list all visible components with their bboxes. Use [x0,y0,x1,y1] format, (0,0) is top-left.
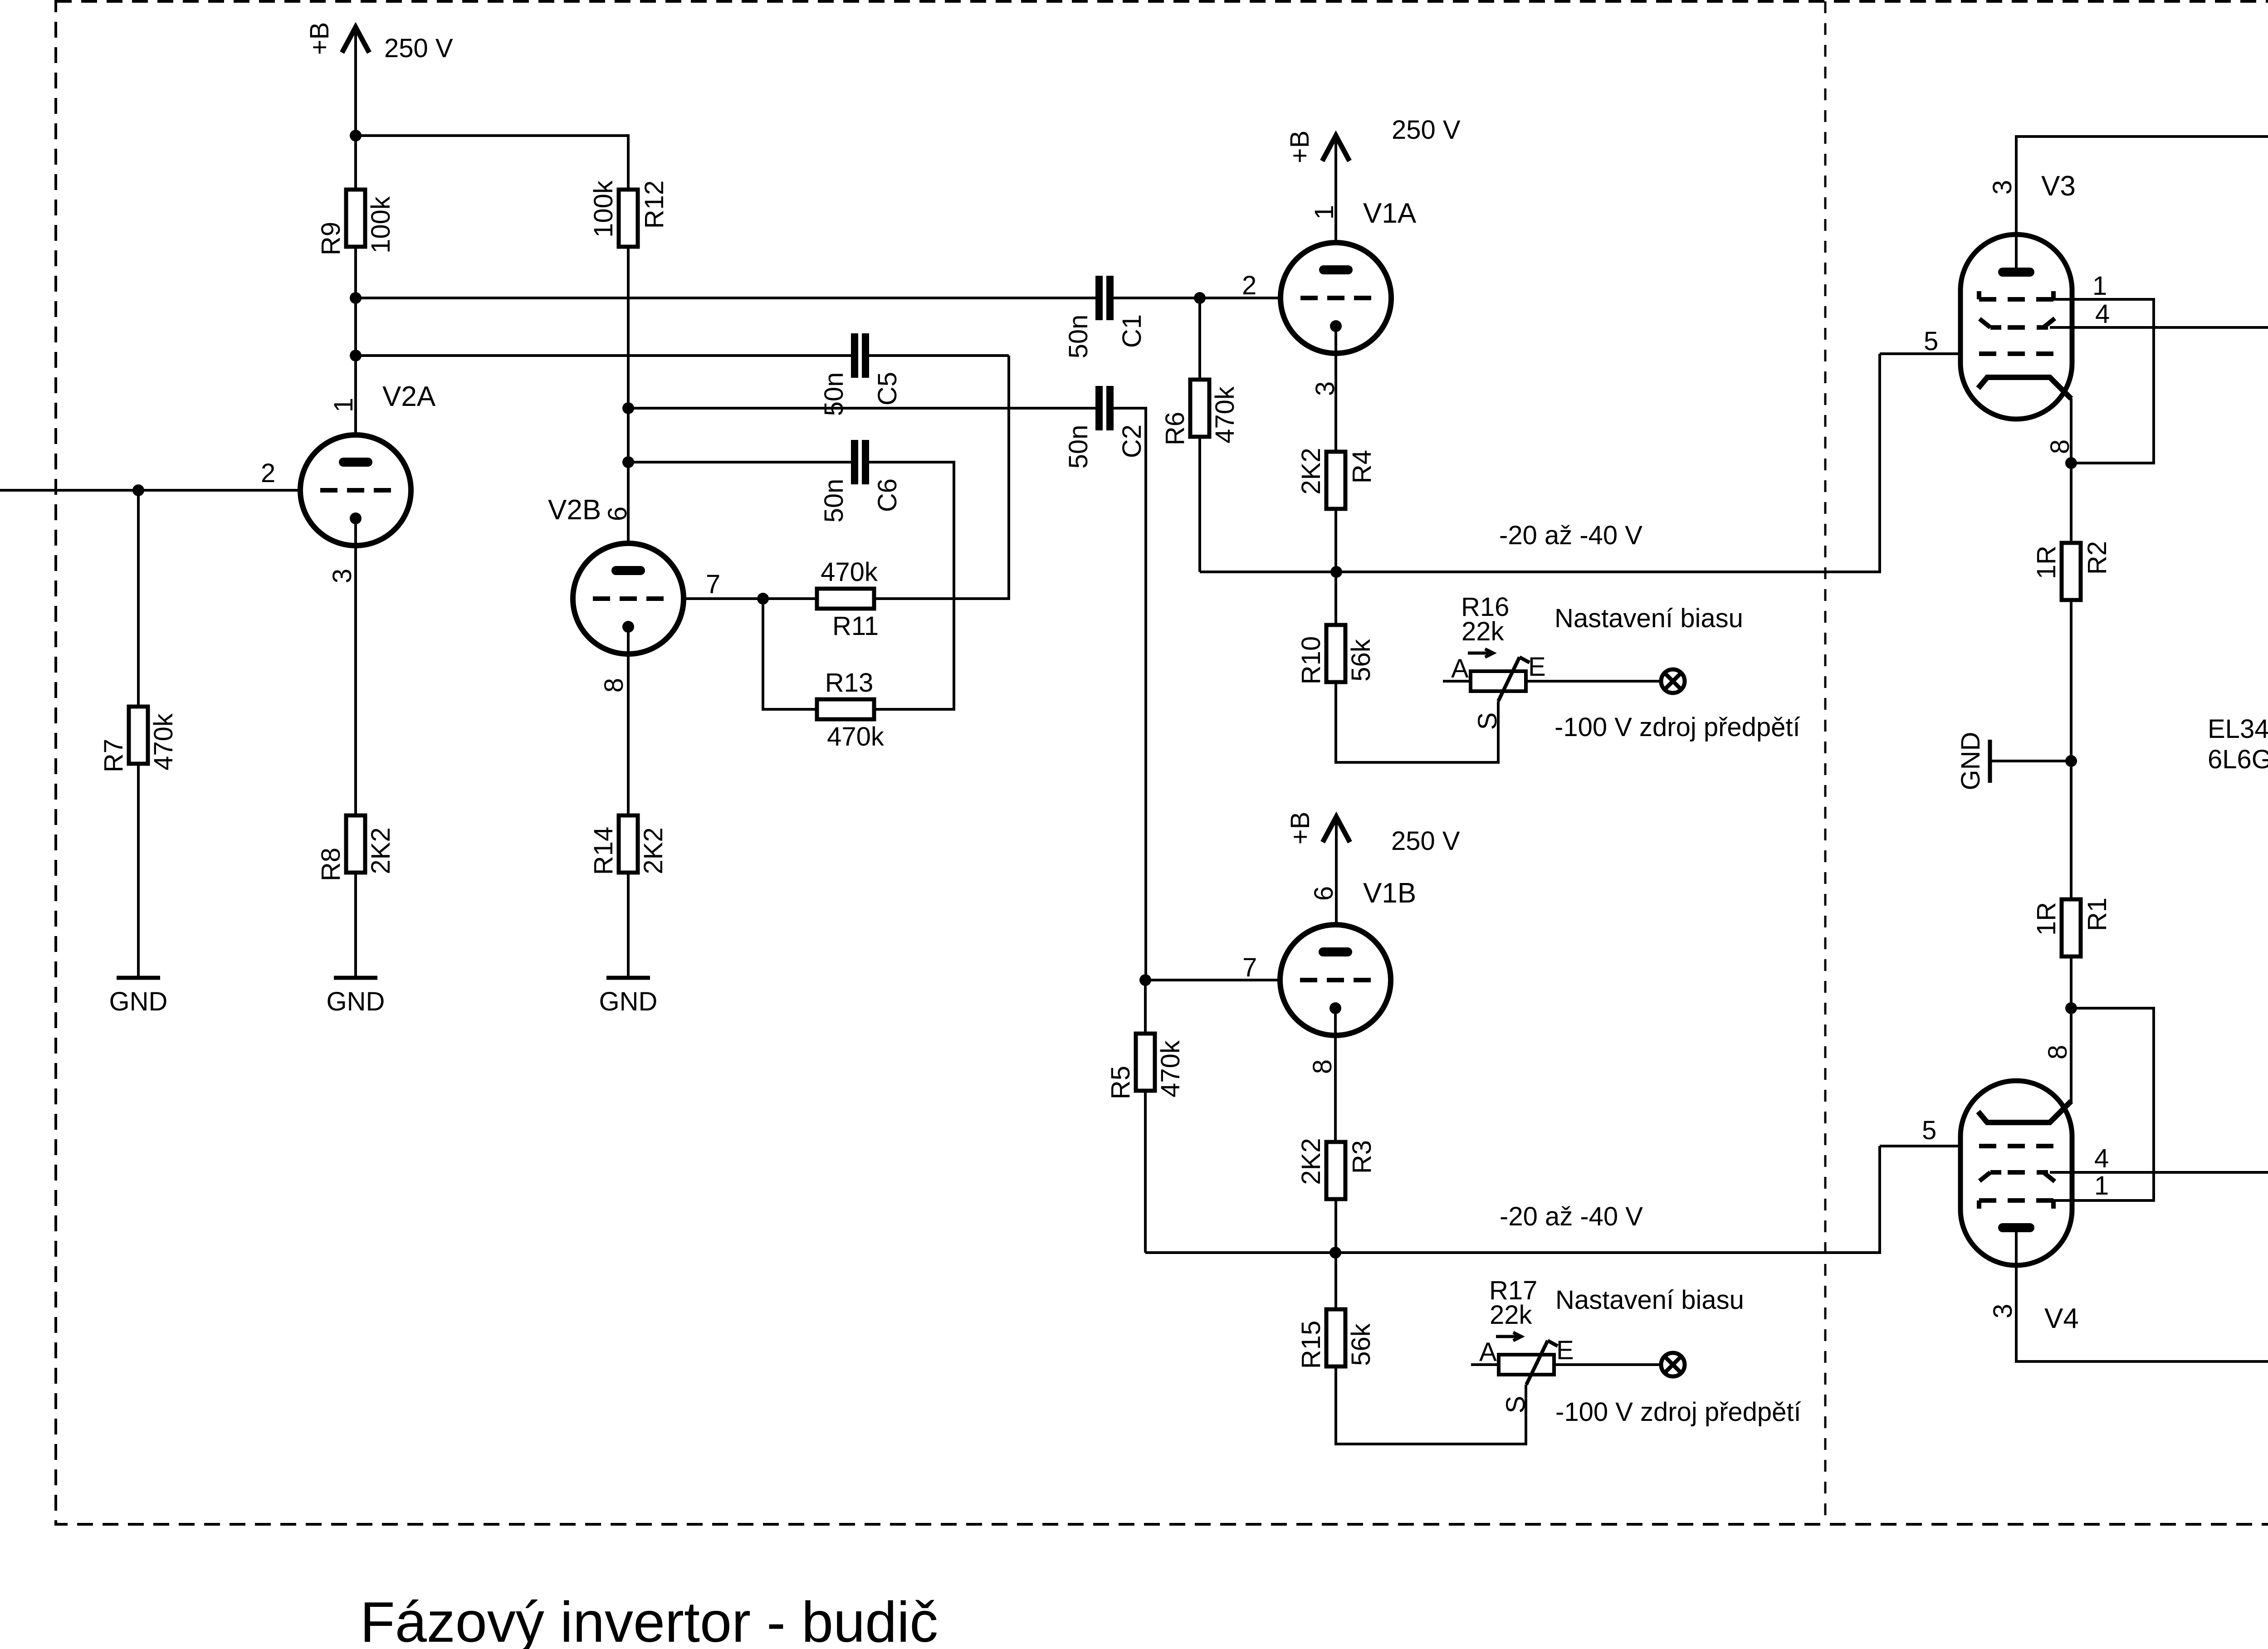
svg-text:R10: R10 [1296,636,1326,684]
wire R15 to R17 wiper [1336,1366,1526,1444]
ground (output stage, rotated) [1988,740,1992,783]
svg-text:5: 5 [1924,327,1938,356]
svg-text:2K2: 2K2 [639,827,668,874]
svg-text:8: 8 [599,678,629,693]
svg-text:R12: R12 [640,181,669,229]
wire V3 pin1 (g3) tied to cathode [2053,299,2154,463]
svg-text:-20 až -40 V: -20 až -40 V [1499,521,1642,550]
pentode tube V3 (EL34) [1960,234,2072,419]
resistor R2 1R [2062,543,2081,600]
ground [334,976,377,980]
svg-text:R8: R8 [316,848,346,881]
potentiometer R16 22k (bias trim) [1471,671,1526,691]
svg-text:7: 7 [1242,953,1257,982]
svg-text:1: 1 [1310,205,1339,220]
pin 6 label (V1B plate) [1309,886,1339,901]
node: GND tie point [2065,755,2077,767]
svg-text:1: 1 [2094,1171,2109,1200]
pin 3 label (V2A cathode) [327,569,357,583]
svg-text:2: 2 [261,459,275,488]
svg-text:22k: 22k [1490,1300,1533,1330]
svg-text:E: E [1556,1336,1574,1365]
pin 8 label (V4 cathode) [2043,1045,2072,1059]
node: input / R7 [132,484,144,496]
svg-text:56k: 56k [1346,639,1376,682]
node: V3 cathode / g3 [2065,457,2077,469]
svg-text:C1: C1 [1117,314,1147,348]
pin 8 label (V3 cathode) [2045,439,2075,454]
svg-text:V4: V4 [2044,1303,2079,1334]
wire V2B cathode to R14 [627,627,630,815]
ground [606,976,650,980]
node: V1B bias node [1330,1247,1341,1259]
svg-text:250 V: 250 V [1391,826,1460,856]
svg-text:6: 6 [603,507,632,521]
wire V1A cathode to R4 [1334,326,1337,452]
wire R10 to R16 wiper [1336,682,1498,762]
svg-text:R1: R1 [2082,898,2112,931]
wire V3 screen to PRIM4/PRIM3 tap [2050,326,2268,329]
svg-text:-100 V zdroj předpětí: -100 V zdroj předpětí [1555,1397,1801,1427]
dashed divider between phase inverter and output stage [1824,1,1827,1524]
svg-text:470k: 470k [1156,1040,1185,1098]
svg-text:EL34, 6P3S: 2x 48 mA: EL34, 6P3S: 2x 48 mA [2208,714,2268,744]
bias supply connector (lamp) [1661,1353,1685,1376]
triode tube V1B [1280,925,1391,1035]
wire R2 to GND node [2070,600,2072,899]
svg-text:R11: R11 [832,611,879,641]
svg-text:50n: 50n [1064,425,1093,469]
wire V3 cathode down to R2 [2070,398,2072,543]
svg-text:+B: +B [1286,812,1315,845]
svg-text:3: 3 [327,569,357,583]
node: V2A anode to C1 line [350,292,362,304]
svg-text:GND: GND [1956,732,1985,790]
resistor R1 1R [2062,899,2081,956]
svg-text:+B: +B [305,22,334,55]
wire V4 pin1 (g3) tied to cathode [2053,1008,2154,1200]
svg-text:E: E [1528,652,1546,682]
svg-text:R6: R6 [1160,412,1190,445]
svg-text:470k: 470k [821,557,878,587]
capacitor C2 50n [1095,386,1103,430]
wire +B rail down to V2A plate [354,26,357,435]
svg-text:50n: 50n [819,479,849,523]
svg-text:5: 5 [1922,1116,1936,1145]
svg-text:1R: 1R [2032,902,2061,936]
resistor R11 470k [817,589,874,609]
pin 3 label (V1A cathode) [1310,381,1340,396]
resistor R9 100k [346,190,365,247]
pin 3 label (V3 plate) [1988,180,2017,195]
resistor R6 470k [1190,380,1209,437]
node: V2B anode to C2 line [622,402,634,414]
svg-text:7: 7 [706,570,720,599]
bias supply connector (lamp) [1661,669,1685,693]
svg-text:250 V: 250 V [1392,115,1461,145]
svg-text:3: 3 [1988,1304,2018,1318]
resistor R4 2K2 [1326,452,1345,509]
svg-text:R3: R3 [1347,1140,1377,1174]
svg-text:470k: 470k [827,722,885,751]
svg-text:22k: 22k [1461,617,1505,646]
resistor R13 470k [817,699,874,719]
svg-text:2K2: 2K2 [1296,1138,1326,1185]
svg-text:C2: C2 [1117,424,1147,458]
svg-text:R14: R14 [589,827,618,875]
resistor R7 470k [129,707,148,764]
svg-text:6: 6 [1309,886,1339,901]
triode tube V2A [300,435,411,546]
wire C5 coupling line: V2A anode to R11 [356,354,852,357]
wire C1 coupling line: V2A anode to V1A grid [356,297,1096,299]
wire R12 to V2B plate [627,246,630,543]
svg-text:-100 V zdroj předpětí: -100 V zdroj předpětí [1554,712,1800,742]
node: V1B grid junction [1139,974,1151,986]
wire R7 to ground [137,490,140,707]
svg-text:4: 4 [2095,299,2110,329]
svg-text:C6: C6 [873,478,902,512]
resistor R14 2K2 [619,815,638,873]
wire V3 grid stub [1880,352,1960,355]
svg-text:1: 1 [2092,271,2107,301]
svg-text:GND: GND [327,987,385,1016]
svg-text:4: 4 [2094,1144,2109,1173]
+B supply arrow 250 V [342,27,369,53]
svg-text:8: 8 [2043,1045,2072,1059]
svg-text:R4: R4 [1347,450,1377,483]
wire +B to V1B plate [1335,817,1338,925]
wire input line to V2A grid [0,489,300,492]
pin 3 label (V4 plate) [1988,1304,2018,1318]
pin 1 label (V2A plate) [329,398,358,412]
svg-text:R9: R9 [316,222,346,255]
wire V4 screen to PRIM2/PRIM1 tap [2050,1171,2268,1174]
svg-text:8: 8 [1308,1059,1337,1074]
svg-text:100k: 100k [589,180,618,238]
svg-text:Fázový invertor - budič: Fázový invertor - budič [360,1590,938,1649]
resistor R5 470k [1136,1034,1155,1091]
node: V2A anode to C5 line [350,350,362,361]
wire R1 to V4 cathode [2070,956,2072,1103]
pin 8 label (V1B cathode) [1308,1059,1337,1074]
wire +B to V1A plate [1334,136,1337,243]
wire C6 feedback line: V2B anode to R13 [628,461,852,463]
svg-text:1: 1 [329,398,358,412]
potentiometer R17 22k (bias trim) [1499,1355,1554,1375]
+B supply arrow 250 V [1322,136,1349,161]
wire V4 grid stub [1880,1145,1960,1147]
svg-text:470k: 470k [149,713,178,771]
triode tube V2B [573,543,684,654]
svg-text:-20 až -40 V: -20 až -40 V [1500,1202,1643,1231]
svg-text:V1B: V1B [1363,878,1416,909]
node: +B junction to R12 branch [350,130,362,141]
triode tube V1A [1281,243,1391,353]
wire R4 to bias node [1334,509,1337,625]
wire V1A grid node to R6 [1198,298,1201,380]
resistor R10 56k [1326,625,1345,682]
node: V2B grid junction [757,593,769,605]
wire V2A cathode to R8 [354,518,357,815]
svg-text:470k: 470k [1210,386,1240,444]
svg-text:2: 2 [1242,271,1256,300]
wire V2B grid to R11/R13 node [684,597,817,600]
wire V1B cathode to R3 [1334,1008,1337,1142]
wire V4 plate to PRIM1 [2016,1228,2268,1361]
wire R6 bottom to bias line [1198,437,1201,572]
capacitor C1 50n [1095,276,1103,320]
+B supply arrow 250 V [1323,817,1350,842]
pentode tube V4 (EL34) [1960,1081,2072,1265]
resistor R3 2K2 [1326,1142,1345,1199]
svg-text:Nastavení biasu: Nastavení biasu [1554,604,1743,633]
svg-text:R5: R5 [1106,1066,1135,1099]
svg-text:R7: R7 [99,739,128,772]
wire R3 to bias node [1334,1199,1337,1309]
svg-text:R13: R13 [825,668,873,698]
node: V4 cathode / g3 [2065,1002,2077,1014]
svg-text:GND: GND [599,987,658,1016]
node: V1A grid / R6 [1194,292,1206,304]
svg-text:+B: +B [1285,131,1315,164]
svg-text:250 V: 250 V [384,34,453,63]
wire bias line -20 az -40 V to V3 grid [1200,354,1880,572]
capacitor C6 50n [851,440,858,484]
svg-text:1R: 1R [2032,546,2061,579]
svg-text:6L6GC: 2x 65 mA: 6L6GC: 2x 65 mA [2208,745,2268,774]
svg-text:R15: R15 [1296,1321,1326,1369]
node: V1A bias node [1330,566,1342,578]
wire branch to R12 [356,136,628,191]
svg-text:GND: GND [109,987,168,1016]
wire V1B grid to tube [1145,979,1280,981]
svg-text:S: S [1473,712,1502,730]
svg-text:Nastavení biasu: Nastavení biasu [1555,1285,1744,1315]
svg-text:100k: 100k [366,196,396,254]
node: V2B anode to C6 line [622,456,634,468]
svg-text:C5: C5 [873,372,902,405]
pin 6 label (V2B plate) [603,507,632,521]
capacitor C5 50n [851,333,858,378]
svg-text:A: A [1479,1337,1497,1367]
svg-text:2K2: 2K2 [1296,448,1326,494]
svg-text:A: A [1451,654,1469,683]
wire R5 to bias node [1144,1091,1147,1253]
wire V2B grid node down to R13 [763,599,817,709]
resistor R15 56k [1326,1309,1345,1366]
svg-text:V3: V3 [2041,171,2076,202]
ground [117,976,160,980]
svg-text:56k: 56k [1346,1323,1376,1366]
wire V3 plate to PRIM4 [2016,137,2268,272]
svg-text:R2: R2 [2082,541,2112,575]
svg-text:V1A: V1A [1363,198,1417,229]
resistor R8 2K2 [346,815,365,873]
resistor R12 100k [619,190,638,247]
pin 1 label (V1A plate) [1310,205,1339,220]
wire V1B grid node to R5 [1144,980,1147,1034]
wire bias line -20 az -40 V to V4 grid [1145,1146,1880,1253]
svg-text:2K2: 2K2 [366,827,396,874]
svg-text:V2A: V2A [382,381,436,412]
svg-text:V2B: V2B [548,494,601,526]
pin 8 label (V2B cathode) [599,678,629,693]
svg-text:S: S [1501,1396,1530,1414]
svg-text:3: 3 [1988,180,2017,195]
svg-text:50n: 50n [1064,315,1093,359]
